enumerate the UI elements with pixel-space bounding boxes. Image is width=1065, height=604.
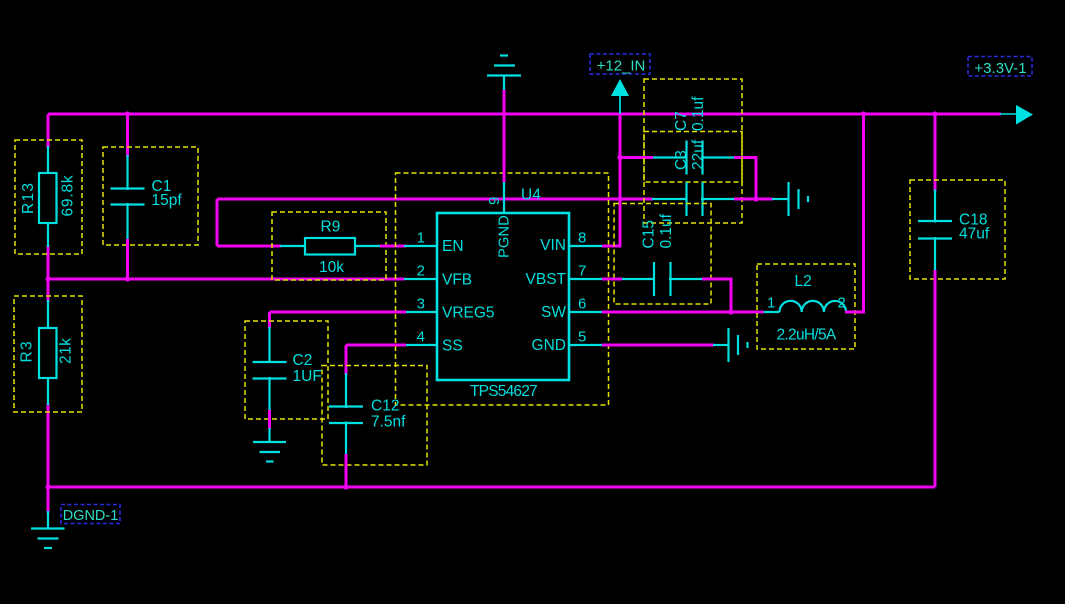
label R9 (321, 219, 341, 236)
capacitor C2 (245, 321, 328, 419)
pin 2 VFB stub (404, 278, 437, 280)
svg-text:0.1uf: 0.1uf (690, 96, 707, 131)
label C1 (152, 178, 172, 195)
pin number 1 (417, 230, 425, 247)
label C18 (959, 212, 987, 229)
ground DGND-1 (31, 511, 65, 548)
label R13 (20, 182, 37, 214)
wire left vertical R13 top (47, 114, 50, 148)
svg-text:10k: 10k (319, 259, 344, 276)
capacitor C15 (614, 204, 711, 305)
pin 6 SW stub (569, 311, 602, 313)
svg-text:TPS54627: TPS54627 (470, 383, 537, 400)
pin name PGND (497, 215, 513, 258)
svg-text:1UF: 1UF (293, 368, 322, 385)
value 15pf (152, 192, 183, 209)
node C18 top junction (932, 111, 937, 116)
wire C7 right to ground (734, 198, 773, 201)
svg-text:R3: R3 (19, 340, 36, 362)
net label +3.3V-1 (968, 57, 1032, 78)
value 69.8k (60, 175, 77, 217)
svg-text:R13: R13 (20, 182, 37, 214)
svg-text:SW: SW (541, 304, 566, 321)
pin name VREG5 (442, 305, 495, 322)
svg-text:C2: C2 (293, 352, 313, 369)
pin number 4 (417, 329, 425, 346)
wire VFB horizontal (48, 278, 405, 281)
wire VIN pin8 to +12 (602, 245, 622, 248)
svg-text:3: 3 (417, 296, 425, 313)
value 21k (58, 338, 75, 365)
wire SS horizontal (346, 344, 406, 347)
wire SS down to C12 (345, 345, 348, 375)
label C12 (371, 398, 399, 415)
wire +12 vertical (619, 114, 622, 246)
pin name VBST (526, 271, 567, 288)
pin name VIN (540, 237, 566, 254)
wire VBST pin7 to C15 (602, 278, 622, 281)
value 2.2uH/5A (777, 327, 837, 344)
pin name SW (541, 304, 566, 321)
node C1/VFB junction (125, 276, 130, 281)
svg-text:PGND: PGND (497, 215, 513, 258)
svg-text:VFB: VFB (442, 272, 472, 289)
svg-text:21k: 21k (58, 338, 75, 365)
svg-text:EN: EN (442, 238, 464, 255)
value 10k (319, 259, 344, 276)
wire C3 left (620, 156, 653, 159)
node +12/C3 junction (617, 155, 622, 160)
pin number 9 (486, 197, 503, 205)
pin number 7 (578, 263, 586, 280)
wire SW horizontal (602, 311, 764, 314)
wire C3 right (734, 158, 756, 200)
ground input caps (right-pointing) (772, 182, 808, 216)
label L2 (795, 273, 812, 290)
pin 5 GND stub (569, 344, 602, 346)
net label DGND-1 (61, 505, 120, 525)
svg-text:69.8k: 69.8k (60, 175, 77, 217)
svg-text:R9: R9 (321, 219, 341, 236)
wire L2 to output vertical (845, 114, 864, 312)
pin number 2 (417, 263, 425, 280)
wire VREG5 down to C2 (268, 312, 271, 328)
value 0.1uf C7 (690, 96, 707, 131)
pin number 3 (417, 296, 425, 313)
ground C2 (253, 428, 286, 462)
wire PGND vertical (503, 90, 506, 182)
wire R13 bottom to VFB node (47, 245, 50, 302)
svg-text:7: 7 (578, 263, 586, 280)
svg-text:9: 9 (486, 197, 503, 205)
svg-text:2: 2 (417, 263, 425, 280)
svg-text:15pf: 15pf (152, 192, 183, 209)
wire C15 to SW (702, 279, 731, 312)
capacitor C3 (644, 132, 742, 183)
value 47uf (959, 226, 990, 243)
pin name EN (442, 238, 464, 255)
value 1UF (293, 368, 322, 385)
output port arrow +3.3V-1 (1000, 105, 1033, 125)
svg-text:0.1uf: 0.1uf (658, 213, 675, 248)
pin 7 VBST stub (569, 278, 602, 280)
ground PGND top (487, 56, 521, 92)
svg-text:7.5nf: 7.5nf (371, 414, 406, 431)
resistor R13 (15, 140, 82, 254)
L2 pin number 2 (838, 295, 846, 312)
node VBST/SW junction (728, 309, 733, 314)
power port +12_IN arrow (611, 79, 629, 114)
resistor R3 (14, 296, 82, 412)
pin 3 VREG5 stub (404, 311, 437, 313)
value TPS54627 (470, 383, 537, 400)
svg-text:VBST: VBST (526, 271, 567, 288)
wire VREG5 horizontal (270, 311, 407, 314)
label C15 (641, 220, 658, 248)
label C3 (673, 150, 690, 170)
inductor L2 (757, 264, 855, 349)
value 7.5nf (371, 414, 406, 431)
net label +12_IN (590, 54, 650, 75)
pin name GND (532, 337, 566, 354)
pin name VFB (442, 272, 472, 289)
pin 9 PGND stub (503, 182, 505, 213)
value 22uf (690, 139, 707, 170)
L2 pin number 1 (767, 295, 775, 312)
pin 4 SS stub (404, 344, 437, 346)
svg-text:C12: C12 (371, 398, 399, 415)
label C2 (293, 352, 313, 369)
capacitor C18 (910, 180, 1005, 279)
svg-text:2: 2 (838, 295, 846, 312)
svg-text:+12_IN: +12_IN (597, 58, 646, 75)
pin number 6 (578, 296, 586, 313)
node DGND left junction (45, 484, 50, 489)
svg-text:VREG5: VREG5 (442, 305, 495, 322)
op-amp U4 TPS54627 body (396, 173, 609, 405)
capacitor C7 (644, 79, 742, 223)
pin 1 EN stub (404, 245, 437, 247)
svg-text:4: 4 (417, 329, 425, 346)
svg-text:1: 1 (767, 295, 775, 312)
svg-text:5: 5 (578, 329, 586, 346)
label C7 (673, 111, 690, 131)
pin number 5 (578, 329, 586, 346)
wire C18 to DGND rail (934, 270, 937, 487)
svg-text:8: 8 (578, 230, 586, 247)
node +12/C7 junction (617, 196, 622, 201)
wire to R9 left (217, 245, 281, 248)
svg-text:22uf: 22uf (690, 139, 707, 170)
pin 8 VIN stub (569, 245, 602, 247)
wire +3.3V-1 top horizontal (48, 113, 1001, 116)
svg-text:DGND-1: DGND-1 (63, 508, 119, 524)
wire DGND drop (47, 487, 50, 513)
svg-text:C15: C15 (641, 220, 658, 248)
svg-text:1: 1 (417, 230, 425, 247)
resistor R9 (272, 212, 386, 280)
pin name SS (442, 338, 463, 355)
wire C2 to ground (268, 410, 271, 429)
capacitor C1 (103, 147, 198, 245)
svg-text:2.2uH/5A: 2.2uH/5A (777, 327, 837, 344)
wire EN net horizontal y199 (217, 198, 653, 201)
label R3 (19, 340, 36, 362)
svg-text:U4: U4 (521, 187, 541, 204)
wire R9 right to pin1 (380, 245, 406, 248)
capacitor C12 (322, 366, 427, 466)
svg-text:6: 6 (578, 296, 586, 313)
node C1 top junction (125, 111, 130, 116)
wire output vertical to C18 (934, 114, 937, 191)
ground GND pin5 (right-pointing) (713, 328, 748, 362)
wire DGND bottom rail (48, 486, 935, 489)
pin number 8 (578, 230, 586, 247)
node VFB junction at R13/R3 (45, 276, 50, 281)
wire C1 top (126, 114, 129, 157)
wire R3 bottom to DGND rail (47, 403, 50, 512)
wire GND pin5 (602, 344, 714, 347)
wire C1 bottom (126, 239, 129, 279)
svg-text:SS: SS (442, 338, 463, 355)
svg-text:+3.3V-1: +3.3V-1 (974, 60, 1026, 77)
svg-text:C3: C3 (673, 150, 690, 170)
label U4 (521, 187, 541, 204)
svg-text:47uf: 47uf (959, 226, 990, 243)
svg-text:VIN: VIN (540, 237, 566, 254)
node output junction top (861, 111, 866, 116)
svg-text:C7: C7 (673, 111, 690, 131)
svg-text:L2: L2 (795, 273, 812, 290)
node C3/C7 ground junction (753, 196, 758, 201)
value 0.1uf C15 (658, 213, 675, 248)
wire EN net vertical drop (216, 199, 219, 246)
svg-text:GND: GND (532, 337, 566, 354)
wire C12 to DGND rail (345, 454, 348, 487)
node C12/DGND junction (343, 484, 348, 489)
